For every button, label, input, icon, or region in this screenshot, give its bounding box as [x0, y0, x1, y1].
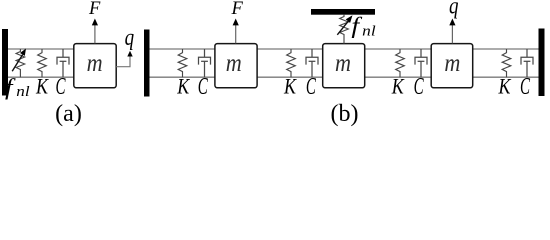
- arrow through fnl spring (b): [337, 21, 348, 35]
- nonlinear spring fnl (b): [340, 15, 349, 44]
- response arrow q (a): [116, 56, 130, 67]
- svg-text:m: m: [87, 48, 103, 77]
- svg-text:K: K: [498, 74, 512, 99]
- wall middle: [144, 30, 150, 97]
- svg-text:F: F: [231, 0, 244, 19]
- svg-text:nl: nl: [362, 24, 376, 40]
- spring K (a): [38, 49, 47, 77]
- wire bottom rail (b) seg4: [473, 76, 539, 78]
- svg-text:nl: nl: [16, 84, 29, 100]
- svg-text:C: C: [520, 74, 531, 100]
- wire bottom rail (b) seg3: [364, 76, 431, 78]
- wire bottom rail (a): [8, 76, 74, 78]
- svg-text:m: m: [335, 48, 351, 77]
- svg-text:q: q: [449, 0, 459, 20]
- svg-text:m: m: [444, 48, 460, 77]
- mass m1 (b): [215, 44, 257, 88]
- svg-text:K: K: [391, 74, 405, 99]
- wire top rail (a): [8, 48, 74, 50]
- svg-text:q: q: [125, 24, 135, 51]
- wall left (a): [2, 29, 8, 96]
- wall right (b): [539, 29, 545, 97]
- mass m3 (b): [431, 44, 473, 88]
- svg-text:K: K: [176, 74, 190, 99]
- spring K4 (b): [502, 49, 511, 77]
- svg-text:(b): (b): [331, 101, 359, 127]
- svg-text:m: m: [226, 48, 242, 77]
- spring K3 (b): [396, 49, 405, 77]
- svg-text:C: C: [198, 74, 209, 100]
- fixed bar above m2: [311, 9, 375, 15]
- spring K1 (b): [178, 49, 187, 77]
- damper C4 (b): [521, 49, 533, 77]
- nonlinear spring fnl (a): [16, 49, 25, 77]
- wire bottom rail (b) seg1: [150, 76, 216, 78]
- spring K2 (b): [287, 49, 296, 77]
- svg-text:K: K: [283, 74, 297, 99]
- wire top rail (b) seg3: [364, 48, 431, 50]
- svg-text:C: C: [414, 74, 425, 100]
- force arrow F (b): [235, 25, 237, 44]
- wire top rail (b) seg2: [257, 48, 323, 50]
- force arrow F (a): [94, 25, 96, 44]
- arrow through fnl spring (a): [12, 49, 26, 72]
- svg-text:(a): (a): [55, 101, 82, 127]
- response arrow q (b): [451, 25, 453, 44]
- wire top rail (b) seg4: [473, 48, 539, 50]
- wire bottom rail (b) seg2: [257, 76, 323, 78]
- damper C2 (b): [306, 49, 318, 77]
- svg-text:F: F: [88, 0, 101, 19]
- mass m2 (b): [323, 44, 365, 88]
- damper C3 (b): [415, 49, 427, 77]
- wire top rail (b) seg1: [150, 48, 216, 50]
- damper C (a): [57, 49, 69, 77]
- mass m (a): [74, 44, 116, 88]
- damper C1 (b): [199, 49, 211, 77]
- svg-text:K: K: [35, 74, 49, 99]
- svg-text:C: C: [56, 74, 67, 100]
- svg-text:C: C: [306, 74, 317, 100]
